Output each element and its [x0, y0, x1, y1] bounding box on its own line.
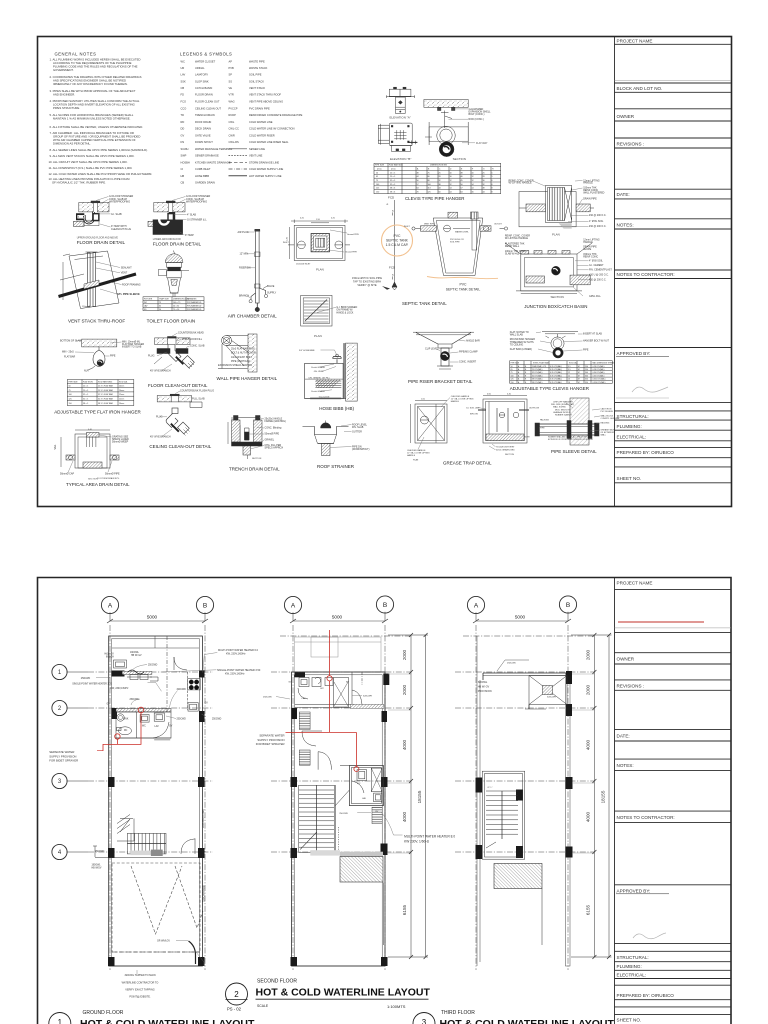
- svg-text:SH: SH: [346, 682, 349, 684]
- svg-text:PIPE: PIPE: [540, 428, 545, 430]
- svg-text:BLOCK AND LOT NO.: BLOCK AND LOT NO.: [617, 86, 663, 91]
- orange ground line under tank: [427, 277, 498, 279]
- plan 3 dim strip: [571, 633, 612, 959]
- svg-text:ADJUSTABLE TYPE CLEVIS HANGER: ADJUSTABLE TYPE CLEVIS HANGER: [510, 386, 590, 391]
- svg-text:FLOOR CLEAN OUT: FLOOR CLEAN OUT: [195, 99, 220, 103]
- svg-text:WALL BLOCK: WALL BLOCK: [601, 415, 614, 418]
- svg-text:PVCCP: PVCCP: [229, 106, 238, 110]
- svg-text:32 LTD(BAL): 32 LTD(BAL): [532, 374, 543, 377]
- svg-text:CCO: CCO: [181, 106, 187, 110]
- svg-text:6: 6: [492, 180, 493, 182]
- sheet border: [38, 37, 732, 507]
- svg-text:WALL PLASTERED: WALL PLASTERED: [583, 191, 604, 194]
- svg-text:PLAN: PLAN: [413, 459, 419, 462]
- svg-text:CWR: CWR: [229, 133, 235, 137]
- svg-text:SPECS APPROX: SPECS APPROX: [265, 446, 284, 449]
- svg-text:CAST IRON: CAST IRON: [601, 408, 612, 411]
- grease trap section labels: [466, 394, 539, 457]
- svg-text:25 x 5: 25 x 5: [390, 176, 395, 178]
- svg-text:PREPARED BY: OIRUBICO: PREPARED BY: OIRUBICO: [617, 450, 675, 455]
- svg-text:LAVATORY: LAVATORY: [195, 73, 208, 77]
- svg-text:P-TRAP: P-TRAP: [185, 234, 194, 237]
- approval scribble sheet 2: [633, 933, 666, 939]
- svg-text:25: 25: [483, 172, 485, 174]
- svg-text:BOLT (CONC.): BOLT (CONC.): [469, 113, 485, 116]
- svg-text:TD: TD: [181, 113, 185, 117]
- svg-text:DRAIN PIPE: DRAIN PIPE: [583, 198, 597, 201]
- svg-text:6: 6: [492, 184, 493, 186]
- svg-text:50: 50: [159, 309, 161, 311]
- svg-text:BRANCH: BRANCH: [239, 295, 249, 298]
- svg-text:4" Ø BL SOIL: 4" Ø BL SOIL: [589, 220, 604, 223]
- svg-text:FLAT BAR (LOWER): FLAT BAR (LOWER): [510, 348, 532, 351]
- svg-text:PROVISION: PROVISION: [478, 690, 492, 693]
- svg-text:VENT PIPE ABOVE CEILING: VENT PIPE ABOVE CEILING: [249, 99, 283, 103]
- svg-text:CONC. SLAB: CONC. SLAB: [190, 345, 205, 348]
- svg-text:OF HYDRAULIC 1/2" THK. RUBBER: OF HYDRAULIC 1/2" THK. RUBBER PIPE.: [52, 181, 106, 185]
- svg-text:HOT WATER SUPPLY LINE: HOT WATER SUPPLY LINE: [249, 174, 282, 178]
- svg-text:12mm: 12mm: [119, 399, 125, 401]
- svg-text:REMARKS: REMARKS: [187, 297, 197, 300]
- svg-text:HANDLE: HANDLE: [407, 454, 416, 457]
- floor drain 2 labels: [185, 195, 210, 237]
- svg-text:RD: RD: [181, 120, 185, 124]
- svg-text:350: 350: [585, 379, 588, 381]
- svg-text:50 x 32: 50 x 32: [173, 305, 179, 307]
- plan 1 red piping: [103, 707, 144, 751]
- svg-text:HANDLE: HANDLE: [583, 182, 593, 185]
- svg-text:65: 65: [376, 176, 378, 178]
- svg-text:12" GA. LOOSE LIFTING: 12" GA. LOOSE LIFTING: [451, 397, 474, 400]
- svg-text:HOT & COLD WATERLINE LAYOUT: HOT & COLD WATERLINE LAYOUT: [80, 1018, 255, 1024]
- svg-text:75mmØ DIGH VERT: 75mmØ DIGH VERT: [496, 447, 515, 449]
- svg-text:190OWL: 190OWL: [92, 865, 102, 867]
- svg-text:18155: 18155: [417, 790, 422, 803]
- svg-text:OUTLET: OUTLET: [494, 224, 503, 226]
- svg-text:12. ALL COLD WATER LINES SHALL: 12. ALL COLD WATER LINES SHALL BE POLYPR…: [49, 172, 153, 176]
- 150mm pipe note: [352, 276, 382, 287]
- plan 1 grid bubbles A B: [101, 596, 213, 623]
- elevation B plate: [378, 123, 417, 151]
- svg-text:IMMEDIATELY OF ANY DISCREPANCY: IMMEDIATELY OF ANY DISCREPANCY FOUND THE…: [53, 82, 128, 86]
- svg-text:NOTES:: NOTES:: [617, 763, 634, 768]
- svg-text:FLAT BAR: FLAT BAR: [64, 356, 75, 359]
- plan 1 outer walls: [109, 636, 203, 966]
- svg-text:50mmØ CAP: 50mmØ CAP: [60, 473, 74, 476]
- plan 2 mid bathroom: [302, 731, 383, 855]
- svg-text:38: 38: [483, 188, 485, 190]
- svg-text:88: 88: [428, 180, 430, 182]
- svg-text:32: 32: [439, 180, 441, 182]
- hose bibb detail: [305, 343, 358, 401]
- plan 2 vent block under bath: [372, 807, 382, 823]
- typical area drain detail: [61, 430, 119, 468]
- svg-text:14: 14: [472, 184, 474, 186]
- svg-text:HINGE & LOCK: HINGE & LOCK: [336, 311, 353, 314]
- pipe riser labels: [425, 340, 480, 364]
- svg-text:REINFORCED CONCRETE DRAINAGE P: REINFORCED CONCRETE DRAINAGE PIPE: [249, 113, 303, 117]
- svg-text:2000: 2000: [402, 649, 407, 660]
- plan 2 grid dash-dot: [271, 625, 411, 970]
- svg-text:SOIL STACK: SOIL STACK: [249, 79, 264, 83]
- septic tank small labels: [404, 224, 503, 244]
- svg-text:100 x 75: 100 x 75: [173, 302, 180, 304]
- svg-text:38 LTD(BAL): 38 LTD(BAL): [532, 378, 543, 381]
- svg-text:FLOOR DRAIN DETAIL: FLOOR DRAIN DETAIL: [153, 242, 202, 247]
- svg-text:HB: HB: [181, 174, 185, 178]
- svg-text:320CWR: 320CWR: [363, 696, 372, 698]
- svg-text:NUT: NUT: [84, 370, 89, 373]
- plan 2 grid bubbles A B: [284, 596, 393, 623]
- svg-text:CEILING CLEAN OUT: CEILING CLEAN OUT: [195, 106, 221, 110]
- air chamber labels: [238, 231, 277, 298]
- svg-text:WILL SIZE (SCHED CAP): WILL SIZE (SCHED CAP): [551, 403, 574, 406]
- svg-text:PIPE RISER BRACKET DETAIL: PIPE RISER BRACKET DETAIL: [408, 379, 473, 384]
- svg-text:ADJUSTABLE TYPE FLAT IRON HANG: ADJUSTABLE TYPE FLAT IRON HANGER: [54, 410, 141, 415]
- svg-text:9.5: 9.5: [568, 369, 571, 371]
- svg-text:GARDEN DRAIN: GARDEN DRAIN: [195, 181, 215, 185]
- svg-text:SEPTIC TANK DETAIL: SEPTIC TANK DETAIL: [402, 301, 447, 306]
- svg-text:11. ALL DOWNSPOUT (D.S.) SHALL: 11. ALL DOWNSPOUT (D.S.) SHALL BE PVC PI…: [49, 166, 133, 170]
- svg-text:44: 44: [417, 176, 419, 178]
- svg-text:EXPANSION SHIELD ANCHOR: EXPANSION SHIELD ANCHOR: [218, 364, 252, 367]
- svg-text:GOVERNMENT.: GOVERNMENT.: [53, 68, 74, 72]
- svg-text:COLD WATER RISER: COLD WATER RISER: [249, 133, 275, 137]
- svg-text:250CWD: 250CWD: [177, 719, 187, 721]
- svg-text:H&W GV: H&W GV: [105, 654, 115, 656]
- svg-text:GREASE TACK: GREASE TACK: [601, 429, 616, 432]
- svg-text:32 X 5 FLAT BAR: 32 X 5 FLAT BAR: [98, 393, 113, 396]
- svg-text:HB W/GV: HB W/GV: [92, 868, 102, 870]
- svg-text:CATCH BASIN: CATCH BASIN: [195, 86, 212, 90]
- svg-text:THIRD FLOOR: THIRD FLOOR: [441, 1010, 475, 1016]
- svg-text:50: 50: [417, 180, 419, 182]
- svg-text:LEGENDS & SYMBOLS: LEGENDS & SYMBOLS: [180, 52, 232, 57]
- svg-text:VAR.: VAR.: [54, 444, 57, 450]
- vent stack labels: [82, 266, 141, 308]
- svg-text:LOWER-GROUND/FLOOR: LOWER-GROUND/FLOOR: [153, 239, 181, 241]
- svg-text:12" GA. LOOSE LIFTING: 12" GA. LOOSE LIFTING: [407, 452, 430, 455]
- svg-text:G.I. SLAB: G.I. SLAB: [111, 213, 122, 216]
- svg-text:APPROVED BY:: APPROVED BY:: [617, 351, 651, 356]
- svg-text:6.35 LTD(BAL): 6.35 LTD(BAL): [550, 374, 562, 377]
- svg-text:4000: 4000: [585, 811, 590, 822]
- svg-text:ROOF DRAIN: ROOF DRAIN: [195, 120, 211, 124]
- svg-text:6.35 LTD(BAL): 6.35 LTD(BAL): [550, 368, 562, 371]
- svg-text:4000: 4000: [402, 739, 407, 750]
- svg-text:50mmØ WEEP: 50mmØ WEEP: [112, 441, 129, 444]
- svg-text:250CWD: 250CWD: [95, 851, 105, 853]
- svg-text:COUNTERSUNK HEAD: COUNTERSUNK HEAD: [178, 332, 204, 335]
- svg-text:100: 100: [376, 184, 379, 186]
- svg-text:ROD (CONC.): ROD (CONC.): [469, 118, 484, 121]
- svg-text:GROUND FLOOR: GROUND FLOOR: [83, 1010, 124, 1016]
- roof drain plan (hatched square): [301, 295, 332, 326]
- svg-text:ROOF FRAMING: ROOF FRAMING: [122, 283, 141, 286]
- svg-text:50: 50: [69, 386, 71, 388]
- svg-text:100: 100: [511, 375, 514, 377]
- svg-text:PIPE SIZE: PIPE SIZE: [511, 362, 520, 364]
- svg-text:VENT: VENT: [121, 272, 128, 275]
- svg-text:57: 57: [461, 188, 463, 190]
- svg-text:5: 5: [492, 176, 493, 178]
- plan 1 interior: upper bath/kitchen: [114, 657, 188, 681]
- svg-text:75: 75: [511, 372, 513, 374]
- svg-text:65: 65: [511, 369, 513, 371]
- pipe sleeve note: [548, 436, 593, 442]
- svg-text:FRAME (GRATING): FRAME (GRATING): [265, 420, 287, 423]
- svg-text:2000: 2000: [585, 684, 590, 695]
- caption plan 3: third floor: [413, 1010, 615, 1024]
- svg-text:LAV: LAV: [362, 797, 367, 800]
- plan 3 grid bubbles A B: [467, 596, 576, 623]
- svg-text:PIPE: PIPE: [583, 349, 589, 352]
- svg-text:250CWD: 250CWD: [339, 813, 348, 815]
- svg-text:POINT@JOBSITE.: POINT@JOBSITE.: [129, 995, 151, 998]
- svg-text:PIPE/MS CLAMP: PIPE/MS CLAMP: [459, 351, 478, 354]
- svg-text:BOLT & NUT ANCHOR: BOLT & NUT ANCHOR: [231, 352, 256, 355]
- svg-text:50: 50: [439, 191, 441, 193]
- svg-text:25 X 5 FLAT BAR: 25 X 5 FLAT BAR: [98, 385, 113, 388]
- svg-text:PIPE SIZE: PIPE SIZE: [69, 381, 79, 383]
- svg-text:G.I. CEMENT: G.I. CEMENT: [589, 264, 604, 267]
- svg-text:32 LTD(BAL): 32 LTD(BAL): [532, 371, 543, 374]
- svg-text:FLOOR DRAIN DETAIL: FLOOR DRAIN DETAIL: [77, 240, 126, 245]
- svg-text:WC: WC: [357, 783, 361, 785]
- svg-text:WASTE PIPE: WASTE PIPE: [249, 59, 265, 63]
- svg-text:CWL-CC: CWL-CC: [229, 127, 240, 131]
- svg-text:NOTES:: NOTES:: [617, 222, 634, 227]
- septic tank callout text: [386, 234, 409, 247]
- svg-text:UP 17: UP 17: [487, 787, 493, 789]
- plan 3 water tank room: [497, 660, 567, 709]
- flat iron hanger table: [67, 380, 134, 406]
- svg-text:PLUMBING:: PLUMBING:: [617, 964, 642, 969]
- svg-text:45: 45: [461, 180, 463, 182]
- plan 3 outer walls (partial roof deck): [477, 636, 570, 966]
- clevis hanger table: [510, 361, 613, 384]
- svg-text:FIN. CEMENTPLAST: FIN. CEMENTPLAST: [589, 269, 612, 272]
- svg-text:SINK: SINK: [123, 718, 129, 720]
- vent stack thru-roof: [59, 251, 137, 309]
- plan 2 counter hatch top right: [350, 704, 384, 708]
- svg-text:PVC DRAIN PIPE: PVC DRAIN PIPE: [249, 106, 270, 110]
- svg-text:LAV: LAV: [155, 725, 160, 728]
- svg-text:CONSTR. GENERAL: CONSTR. GENERAL: [601, 417, 621, 420]
- clevis hanger labels: [510, 331, 610, 352]
- svg-text:25x3 FLAT BAR RING: 25x3 FLAT BAR RING: [231, 348, 255, 351]
- svg-text:SS: SS: [229, 79, 233, 83]
- floor drain detail (upper ground floor): [74, 201, 110, 227]
- svg-text:10mmØ EXP. BOLT: 10mmØ EXP. BOLT: [231, 356, 253, 359]
- svg-text:GATE VALVE: GATE VALVE: [195, 133, 211, 137]
- svg-text:SCALE: SCALE: [257, 1004, 269, 1008]
- svg-text:12: 12: [568, 372, 570, 374]
- svg-text:SECOND FLOOR: SECOND FLOOR: [257, 979, 297, 985]
- svg-text:VTR: VTR: [229, 93, 234, 97]
- svg-text:WATERLINE CONTRACTOR TO: WATERLINE CONTRACTOR TO: [122, 981, 159, 984]
- svg-text:REINF CONC: REINF CONC: [583, 255, 598, 258]
- svg-text:25 x 5: 25 x 5: [390, 172, 395, 174]
- svg-text:0.354 LTD(BAL): 0.354 LTD(BAL): [593, 381, 606, 384]
- svg-text:ELEVATION "B": ELEVATION "B": [390, 157, 411, 161]
- svg-text:AIR CHAMBER DETAIL: AIR CHAMBER DETAIL: [228, 314, 277, 319]
- svg-text:45° WYE BRANCH: 45° WYE BRANCH: [150, 436, 171, 439]
- svg-text:PREPARED BY: OIRUBICO: PREPARED BY: OIRUBICO: [617, 993, 675, 998]
- svg-text:SEPTIC TANK DETAIL: SEPTIC TANK DETAIL: [446, 288, 481, 292]
- svg-text:12: 12: [472, 180, 474, 182]
- svg-text:OWNER: OWNER: [617, 114, 635, 119]
- svg-text:CI: CI: [181, 167, 184, 171]
- svg-text:A: A: [474, 602, 479, 609]
- clevis table text fill: [375, 164, 494, 194]
- plan 1 parking dashed: [112, 863, 203, 952]
- svg-text:HOT & COLD WATERLINE LAYOUT: HOT & COLD WATERLINE LAYOUT: [440, 1018, 615, 1024]
- svg-text:10: 10: [472, 172, 474, 174]
- svg-text:PLAN: PLAN: [314, 334, 322, 338]
- svg-text:RCDP: RCDP: [229, 113, 237, 117]
- svg-text:Ground PIPE: Ground PIPE: [345, 252, 357, 254]
- svg-text:MULTI-POINT WATER HEATER 8.0: MULTI-POINT WATER HEATER 8.0: [404, 834, 455, 838]
- svg-text:40: 40: [461, 176, 463, 178]
- svg-text:PVC: PVC: [460, 283, 468, 287]
- svg-text:3: 3: [422, 1018, 427, 1024]
- svg-text:MAX DIMENSION THREAT: MAX DIMENSION THREAT: [593, 361, 616, 364]
- svg-text:50: 50: [376, 172, 378, 174]
- svg-text:INLET: INLET: [404, 226, 410, 228]
- svg-text:RISER/DN: RISER/DN: [239, 267, 251, 270]
- svg-text:14: 14: [450, 191, 452, 193]
- caption plan 1: ground floor: [49, 1010, 255, 1024]
- svg-text:CWL-RS: CWL-RS: [229, 140, 240, 144]
- svg-text:320CWL(TL/BB): 320CWL(TL/BB): [201, 809, 205, 828]
- svg-text:INSERT TO SLAB: INSERT TO SLAB: [122, 346, 142, 349]
- FCD riser line: [392, 200, 397, 290]
- svg-text:CONC. INSERT: CONC. INSERT: [459, 361, 477, 364]
- svg-text:G.I. SUS. LINE: G.I. SUS. LINE: [466, 408, 480, 410]
- svg-text:GR WA/LGV: GR WA/LGV: [157, 940, 170, 943]
- svg-text:TOILET FLOOR DRAIN: TOILET FLOOR DRAIN: [147, 319, 196, 324]
- svg-text:75: 75: [159, 302, 161, 304]
- svg-text:DD: DD: [181, 127, 185, 131]
- wall pipe hanger labels: [218, 348, 256, 368]
- clevis type pipe hanger table: [374, 163, 501, 193]
- floor drain detail (lower ground floor): [148, 201, 185, 235]
- svg-text:ELECTRICAL:: ELECTRICAL:: [617, 973, 647, 978]
- svg-text:B: B: [566, 602, 570, 609]
- svg-text:SUPPLY: SUPPLY: [267, 292, 277, 295]
- roof strainer: [303, 421, 349, 456]
- svg-text:Ø: Ø: [387, 204, 389, 206]
- svg-text:COLD WATER SUPPLY LINE: COLD WATER SUPPLY LINE: [249, 167, 283, 171]
- svg-text:PS - 02: PS - 02: [227, 1007, 242, 1012]
- svg-text:STL PIPE SLEEVE: STL PIPE SLEEVE: [117, 292, 140, 296]
- general notes body: [49, 58, 153, 185]
- clevis section: [425, 122, 468, 157]
- svg-text:W/ LIFTING HANDLE: W/ LIFTING HANDLE: [509, 182, 533, 185]
- svg-text:SHEET NO.: SHEET NO.: [617, 476, 642, 481]
- toilet floor drain (vent cap): [158, 251, 189, 297]
- svg-text:HOSBH: HOSBH: [181, 160, 190, 164]
- svg-text:TYPICAL AREA DRAIN DETAIL: TYPICAL AREA DRAIN DETAIL: [66, 482, 130, 487]
- svg-text:KW, 230V,1/60Hz: KW, 230V,1/60Hz: [226, 653, 246, 656]
- svg-text:25 X 5 FLAT BAR: 25 X 5 FLAT BAR: [98, 389, 113, 392]
- junction box section labels: [505, 235, 612, 299]
- svg-text:50: 50: [511, 366, 513, 368]
- svg-text:CURB INLET: CURB INLET: [195, 167, 211, 171]
- svg-text:GV: GV: [169, 726, 173, 728]
- svg-text:FLOOR CLEAN-OUT DETAIL: FLOOR CLEAN-OUT DETAIL: [148, 383, 208, 388]
- svg-text:300: 300: [585, 372, 588, 374]
- svg-text:14: 14: [450, 188, 452, 190]
- svg-text:8: 8: [492, 191, 493, 193]
- svg-text:SLAB W/ #10: SLAB W/ #10: [505, 253, 520, 256]
- svg-text:Ø mm: Ø mm: [391, 210, 393, 216]
- plan 1 row bubbles 1-4: [52, 664, 88, 859]
- svg-text:SOIL PIPE: SOIL PIPE: [450, 241, 460, 243]
- svg-text:50mmØ PIPE: 50mmØ PIPE: [265, 433, 280, 436]
- svg-text:PACKING: PACKING: [540, 419, 549, 422]
- svg-text:WATER DRAINAGE TERMINAL: WATER DRAINAGE TERMINAL: [195, 147, 233, 151]
- svg-text:GENERAL NOTES: GENERAL NOTES: [55, 52, 97, 57]
- toilet drain table: [143, 297, 204, 311]
- plan 2 upper bathroom: [295, 672, 381, 708]
- svg-text:TO STORM DRAIN SYS.: TO STORM DRAIN SYS.: [97, 477, 120, 480]
- svg-text:250CWD: 250CWD: [81, 678, 91, 680]
- svg-text:16: 16: [568, 379, 570, 381]
- svg-text:SWP: SWP: [181, 154, 187, 158]
- svg-text:30: 30: [483, 180, 485, 182]
- grease trap section: [478, 396, 529, 444]
- svg-text:12: 12: [450, 184, 452, 186]
- svg-text:ROD DIA.: ROD DIA.: [119, 380, 128, 383]
- svg-text:64: 64: [461, 191, 463, 193]
- svg-text:SEWER LINE: SEWER LINE: [249, 147, 265, 151]
- svg-text:GV: GV: [107, 704, 111, 706]
- septic tank highlight circle (orange): [382, 225, 413, 256]
- svg-text:10: 10: [450, 176, 452, 178]
- svg-text:HANDLE: HANDLE: [451, 400, 460, 403]
- svg-text:PVC/SANIMOLD: PVC/SANIMOLD: [187, 308, 202, 311]
- svg-text:LAV: LAV: [181, 73, 186, 77]
- svg-text:STRUCTURAL:: STRUCTURAL:: [617, 955, 649, 960]
- svg-text:18155: 18155: [601, 790, 606, 803]
- svg-text:#10 @ 200 O.C.: #10 @ 200 O.C.: [589, 225, 607, 228]
- svg-text:WALL SCHED: WALL SCHED: [553, 406, 566, 409]
- svg-text:STEEL PLATE BAR: STEEL PLATE BAR: [533, 361, 550, 364]
- svg-text:VENT STACK THRU-ROOF: VENT STACK THRU-ROOF: [68, 319, 125, 324]
- svg-text:SECTION: SECTION: [453, 157, 466, 161]
- plan 1 tapping note: [122, 974, 159, 998]
- svg-text:VERIFY @ SITE: VERIFY @ SITE: [357, 283, 376, 287]
- svg-text:HB W/ GV: HB W/ GV: [478, 686, 490, 689]
- svg-text:BOTTOM OF SLAB: BOTTOM OF SLAB: [60, 340, 81, 343]
- plan 1 separate water note: [49, 750, 78, 763]
- svg-text:SHEET NO.: SHEET NO.: [617, 1018, 642, 1023]
- svg-text:PLAN: PLAN: [552, 232, 560, 236]
- ceiling clean-out labels: [150, 390, 214, 439]
- svg-text:16: 16: [472, 191, 474, 193]
- svg-text:CB: CB: [181, 181, 185, 185]
- adjustable clevis hanger: [542, 332, 578, 358]
- svg-text:WAG: WAG: [229, 99, 235, 103]
- septic tank body: [412, 212, 508, 276]
- svg-text:DOWN SPOUT: DOWN SPOUT: [195, 140, 213, 144]
- svg-text:SWCWL: SWCWL: [478, 681, 488, 684]
- svg-text:CHB. FLOOR FILL: CHB. FLOOR FILL: [182, 338, 203, 341]
- svg-text:VENT PIPE: VENT PIPE: [424, 224, 435, 226]
- grease trap plan labels: [407, 395, 474, 462]
